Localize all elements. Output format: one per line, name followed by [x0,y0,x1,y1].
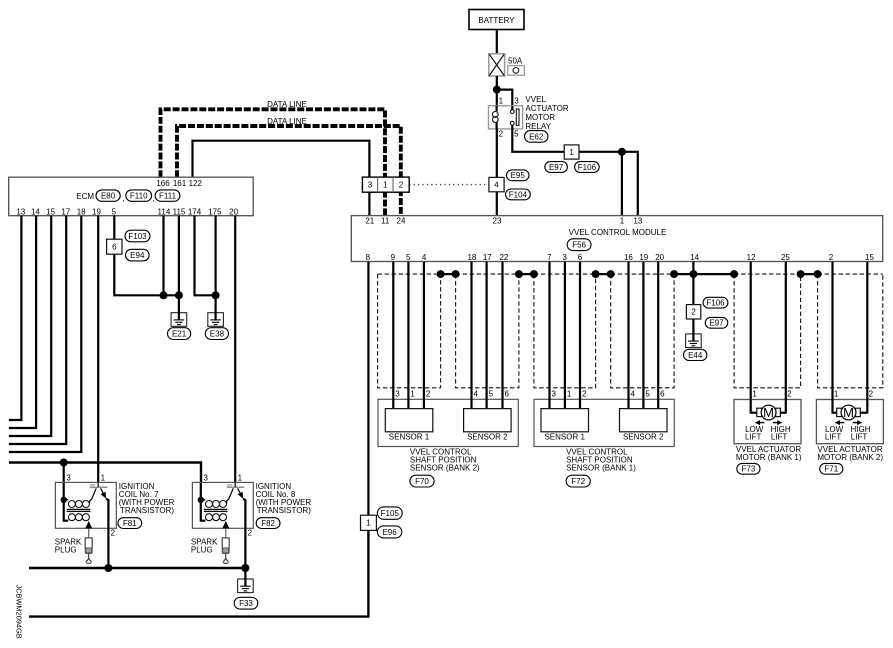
svg-text:TRANSISTOR): TRANSISTOR) [257,506,311,515]
svg-text:3: 3 [562,253,567,262]
svg-text:ECM: ECM [76,192,94,201]
svg-text:E95: E95 [511,171,526,180]
wire junction to module pin 1 [621,152,623,216]
svg-text:E96: E96 [382,528,397,537]
motor bank2 box [816,400,883,444]
svg-text:13: 13 [633,216,642,225]
svg-text:VVEL: VVEL [525,95,546,104]
svg-text:9: 9 [391,253,396,262]
svg-text:16: 16 [624,253,633,262]
node pin115 junction [175,291,183,299]
wire ECM pin 20 to coil8 pin 1 [234,216,236,483]
svg-text:2: 2 [111,529,116,538]
wire ECM pin 13 [9,216,22,420]
node E97/F106 junction [618,148,626,156]
wire relay pin2 to module pin 23 [496,129,498,216]
coil F81 internals (transformer + power transistor) [64,483,68,521]
svg-text:6: 6 [112,243,117,252]
connector ref F106 (pin14) [703,297,728,308]
connector ref E38 [205,328,228,340]
svg-text:LIFT: LIFT [745,433,762,442]
svg-text:6: 6 [504,390,509,399]
wire tap to coil7 pin 3 [63,463,65,484]
svg-text:F81: F81 [123,519,137,528]
svg-text:5: 5 [489,390,494,399]
svg-text:DATA LINE: DATA LINE [267,100,307,109]
svg-text:F106: F106 [578,163,597,172]
svg-text:DATA LINE: DATA LINE [267,117,307,126]
svg-text:115: 115 [173,208,186,217]
ground E38 [208,313,224,327]
svg-text:1: 1 [383,181,388,190]
shield box bank2 sensor2 [456,274,519,388]
svg-text:2: 2 [787,390,792,399]
module pin8 return rail [29,531,368,617]
svg-text:1: 1 [366,519,371,528]
battery [469,10,524,30]
svg-text:19: 19 [92,208,101,217]
shield jumper C-D [596,273,611,275]
svg-text:PLUG: PLUG [191,546,213,555]
svg-text:LIFT: LIFT [771,433,788,442]
connector ref F71 [820,463,843,474]
wire module pin8 to connector 1 [367,262,369,516]
svg-text:2: 2 [499,130,504,139]
svg-text:E97: E97 [709,319,724,328]
svg-text:E62: E62 [529,132,544,141]
relay coil [496,106,498,112]
svg-text:166: 166 [156,179,170,188]
connector ref E44 [684,349,707,360]
svg-text:JCBWM2094GB: JCBWM2094GB [14,585,23,639]
svg-text:SENSOR (BANK 2): SENSOR (BANK 2) [410,464,480,473]
data line wire ECM 161 to module 24 (dashed) [177,126,401,216]
svg-text:4: 4 [473,390,478,399]
wire connector6 to ground bus [114,254,179,295]
wire relay pin5 to module pins 1/13 [512,129,638,215]
svg-text:50A: 50A [508,56,523,65]
shield jumper D-E [674,273,734,275]
wire ECM pin 115 to ground E21 [178,216,180,313]
svg-text:2: 2 [582,390,587,399]
svg-text:21: 21 [365,216,374,225]
svg-text:14: 14 [31,208,40,217]
svg-text:1: 1 [101,473,106,482]
svg-text:MOTOR (BANK 1): MOTOR (BANK 1) [736,453,802,462]
shield box motor bank1 [734,274,801,388]
svg-text:5: 5 [406,253,411,262]
svg-text:114: 114 [158,208,171,217]
connector 3|1|2 row [362,177,409,192]
connector ref F70 [410,475,434,487]
svg-text:F111: F111 [159,192,177,201]
svg-text:1: 1 [569,148,574,157]
bank2 SENSOR 2 box [464,409,512,432]
svg-text:1: 1 [752,390,757,399]
wires module 2/15 to motor bank2 [831,262,833,414]
svg-text:F73: F73 [742,465,756,474]
wire junction to relay pin 3 [497,90,513,107]
svg-text:2: 2 [829,253,834,262]
svg-text:17: 17 [483,253,492,262]
svg-text:SENSOR 2: SENSOR 2 [623,433,664,442]
svg-text:24: 24 [397,216,406,225]
svg-text:PLUG: PLUG [55,546,77,555]
svg-text:F103: F103 [128,232,147,241]
svg-text:LIFT: LIFT [825,433,842,442]
shield box bank1 sensor2 [611,274,674,388]
connector 1 (F105/E96) [361,515,377,530]
svg-text:F105: F105 [381,509,400,518]
svg-text:SENSOR 2: SENSOR 2 [467,433,508,442]
svg-text:M: M [763,405,774,420]
relay pin 5 stub [511,125,513,129]
connector ref F105 [377,507,402,519]
svg-text:18: 18 [77,208,86,217]
wire ECM pin 174 [195,216,216,296]
node pin114 junction [160,291,168,299]
svg-text:3: 3 [551,390,556,399]
svg-text:13: 13 [16,208,25,217]
wire ECM pin 19 to coil7 pin 1 [97,216,99,483]
ground F33 [238,579,254,593]
svg-text:SENSOR 1: SENSOR 1 [389,433,430,442]
svg-text:E97: E97 [549,163,564,172]
connector ref E95 [506,170,529,181]
wire ECM pin 175 to ground E38 [215,216,217,313]
svg-text:20: 20 [655,253,664,262]
svg-text:1: 1 [410,390,415,399]
wire connector 2 to ground E44 [692,319,694,334]
wire coil7 pin2 to ground rail [107,528,109,568]
svg-text:F71: F71 [824,465,838,474]
svg-text:122: 122 [189,179,203,188]
wires module 18/17/22 to bank2 sensor2 [470,262,472,409]
svg-text:14: 14 [690,253,699,262]
svg-text:15: 15 [46,208,55,217]
svg-text:SENSOR 1: SENSOR 1 [544,433,585,442]
svg-text:4: 4 [422,253,427,262]
node coil8 ground junction [241,564,249,572]
fuse 50A [489,54,505,76]
svg-text:6: 6 [660,390,665,399]
svg-text:MOTOR (BANK 2): MOTOR (BANK 2) [817,453,883,462]
svg-text:F106: F106 [706,299,725,308]
svg-text:5: 5 [112,208,117,217]
relay contact bar [516,109,519,125]
svg-text:F72: F72 [571,477,585,486]
motor bank2 symbol M [833,412,837,414]
connector ref F103 [125,230,150,242]
wire ignition power rail [9,463,201,483]
svg-text:8: 8 [366,253,371,262]
svg-text:23: 23 [493,216,502,225]
VVEL control module box [351,216,882,262]
wire coil8 pin2 to ground rail [244,528,246,568]
ground E44 [686,334,702,348]
wire to ground F33 [244,568,246,579]
spark plug 8 symbol [222,538,229,548]
svg-text:1: 1 [620,216,625,225]
svg-text:,: , [122,194,124,203]
svg-text:19: 19 [639,253,648,262]
svg-text:F110: F110 [130,192,148,201]
connector ref E97 [545,162,568,173]
relay contact circles [510,110,514,114]
svg-text:5: 5 [514,130,519,139]
svg-text:,: , [152,194,154,203]
wire ECM 122 to module 21 [193,141,370,216]
connector ref E80 [96,190,120,201]
svg-text:SENSOR (BANK 1): SENSOR (BANK 1) [566,464,636,473]
connector 2 (F106/E97) [686,305,700,319]
svg-text:174: 174 [188,208,202,217]
svg-text:E44: E44 [688,351,703,360]
connector ref E97 (pin14) [705,317,728,328]
svg-text:18: 18 [467,253,476,262]
connector ref F104 [506,189,531,200]
svg-text:3: 3 [368,181,373,190]
svg-text:ACTUATOR: ACTUATOR [525,104,568,113]
svg-text:1: 1 [499,96,504,105]
ground E21 [171,313,187,327]
svg-text:E38: E38 [210,330,225,339]
connector ref E21 [168,328,191,340]
svg-text:F56: F56 [572,241,586,250]
connector 1 (E97/F106) [564,145,579,159]
bank1 sensor outer box [534,399,674,446]
svg-text:1: 1 [567,390,572,399]
connector ref F82 [256,518,280,529]
svg-text:LIFT: LIFT [851,433,868,442]
svg-text:RELAY: RELAY [525,122,551,131]
relay E62 box [489,106,523,129]
shield box bank2 sensor1 [378,274,441,388]
shield jumper A-B [441,273,456,275]
svg-text:2: 2 [426,390,431,399]
svg-text:TRANSISTOR): TRANSISTOR) [120,506,174,515]
battery B+ feed wire [496,30,498,55]
wire ECM pin 15 [9,216,51,436]
node battery/relay junction [493,86,501,94]
coil F82 internals (transformer + power transistor) [201,483,206,521]
ignition coil F82 box [192,482,253,528]
connector ref F106 [575,162,600,173]
svg-text:2: 2 [691,308,696,317]
svg-text:3: 3 [514,96,519,105]
wire fuse to relay [496,76,498,106]
wire module pin14 to connector 2 [692,262,694,305]
connector ref E94 [126,249,150,261]
svg-text:20: 20 [229,208,238,217]
svg-text:E80: E80 [101,192,116,201]
bank2 SENSOR 1 box [385,409,433,432]
ECM box [9,177,254,216]
svg-text:25: 25 [781,253,790,262]
ignition coil F81 box [55,482,116,528]
svg-text:7: 7 [547,253,552,262]
wires module 16/19/20 to bank1 sensor2 [627,262,629,409]
wires module 7/3/6 to bank1 sensor1 [548,262,550,409]
connector ref E62 [525,131,548,143]
svg-text:F82: F82 [261,519,275,528]
svg-text:161: 161 [173,179,187,188]
connector 4 (E95/F104) [489,177,504,191]
connector ref F56 [567,239,591,251]
connector ref F81 [118,518,142,529]
shield box bank1 sensor1 [534,274,596,388]
wire ECM pin 114 [162,216,164,296]
svg-text:1: 1 [834,390,839,399]
shield jumper E-F [801,273,818,275]
wire ECM pin 17 [9,216,66,444]
spark plug 7 symbol [85,538,92,548]
svg-text:2: 2 [869,390,874,399]
wires module 9/5/4 to bank2 sensor1 [392,262,394,409]
svg-text:11: 11 [381,216,390,225]
node pin14 shield junction [689,270,697,278]
svg-text:MOTOR: MOTOR [525,113,555,122]
node pin175 junction [212,291,220,299]
svg-text:VVEL CONTROL MODULE: VVEL CONTROL MODULE [569,228,667,237]
svg-text:3: 3 [395,390,400,399]
svg-text:15: 15 [865,253,874,262]
svg-text:2: 2 [399,181,404,190]
svg-text:F70: F70 [415,477,429,486]
wire ECM pin 5 [113,216,115,240]
connector ref F73 [737,463,760,474]
wires module 12/25 to motor bank1 [750,262,752,414]
connector ref E96 [377,526,401,538]
wire ECM pin 14 [9,216,36,428]
svg-text:22: 22 [499,253,508,262]
svg-text:4: 4 [494,181,499,190]
shield jumper B-C [519,273,534,275]
svg-text:BATTERY: BATTERY [478,16,515,25]
motor bank1 box [734,400,801,444]
svg-text:175: 175 [208,208,222,217]
connector 6 (F103/E94) [107,239,122,254]
svg-text:6: 6 [578,253,583,262]
svg-text:5: 5 [645,390,650,399]
data line wire ECM 166 to module 11 (dashed) [161,109,386,215]
svg-text:M: M [843,405,854,420]
svg-text:F33: F33 [239,599,253,608]
svg-text:12: 12 [747,253,756,262]
svg-text:3: 3 [203,473,208,482]
connector ref F72 [566,475,590,487]
connector ref F110 [126,190,152,201]
svg-text:E94: E94 [130,251,145,260]
svg-text:F104: F104 [509,190,528,199]
connector ref F111 [155,190,180,201]
svg-text:1: 1 [238,473,243,482]
relay pin 3 stub [511,106,513,110]
motor bank1 symbol M [751,412,757,414]
shield box motor bank2 [818,274,883,388]
wire ECM pin 18 [9,216,81,452]
svg-text:4: 4 [630,390,635,399]
node coil7 ground junction [104,564,112,572]
bank1 SENSOR 2 box [620,409,668,432]
node coil7 pin3 tap [60,459,68,467]
bank1 SENSOR 1 box [541,409,589,432]
svg-text:3: 3 [66,473,71,482]
svg-text:17: 17 [61,208,70,217]
svg-text:2: 2 [248,529,253,538]
dotted link 3|1|2 to 4 [409,184,489,186]
connector ref F33 [234,597,258,609]
bank2 sensor outer box [378,399,518,446]
coil ground rail [29,567,245,570]
svg-text:E21: E21 [172,330,187,339]
